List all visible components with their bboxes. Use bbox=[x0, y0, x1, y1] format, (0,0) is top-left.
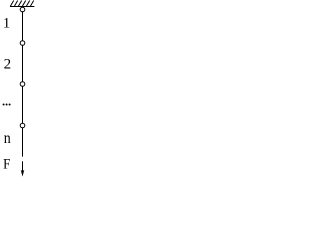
svg-text:F: F bbox=[3, 157, 10, 173]
svg-text:1: 1 bbox=[3, 15, 11, 31]
svg-text:n: n bbox=[4, 130, 11, 147]
svg-text:2: 2 bbox=[4, 57, 12, 73]
